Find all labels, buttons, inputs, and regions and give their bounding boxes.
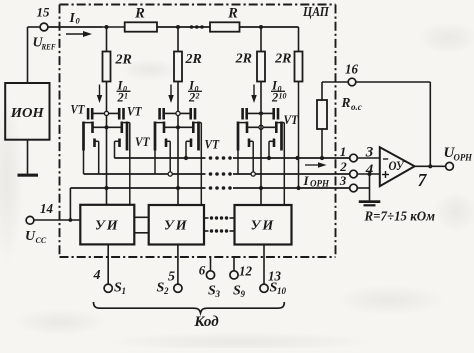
svg-text:3: 3 xyxy=(339,173,347,188)
svg-text:2R: 2R xyxy=(185,52,202,67)
svg-text:5: 5 xyxy=(168,270,175,285)
svg-text:6: 6 xyxy=(199,263,206,278)
svg-text:ИОН: ИОН xyxy=(10,105,45,120)
svg-text:10: 10 xyxy=(279,92,287,101)
svg-text:УИ: УИ xyxy=(164,219,189,234)
svg-text:1: 1 xyxy=(340,144,347,159)
svg-text:2R: 2R xyxy=(274,52,291,67)
svg-text:R: R xyxy=(227,6,238,22)
svg-text:I: I xyxy=(303,173,310,188)
svg-text:3: 3 xyxy=(365,145,374,161)
svg-text:УИ: УИ xyxy=(95,219,120,234)
svg-text:VT: VT xyxy=(284,112,299,127)
svg-text:I: I xyxy=(69,10,76,25)
svg-text:VT: VT xyxy=(205,137,220,152)
svg-text:15: 15 xyxy=(37,5,51,20)
svg-text:10: 10 xyxy=(277,286,287,296)
svg-text:2: 2 xyxy=(117,91,124,105)
svg-text:ОУ: ОУ xyxy=(389,158,406,173)
svg-text:12: 12 xyxy=(239,265,252,280)
svg-text:УИ: УИ xyxy=(251,219,276,234)
svg-text:U: U xyxy=(25,229,36,244)
svg-text:ЦАП: ЦАП xyxy=(302,4,329,19)
svg-text:3: 3 xyxy=(215,289,221,299)
svg-text:СС: СС xyxy=(36,236,47,245)
svg-text:ОРН: ОРН xyxy=(310,179,330,189)
svg-text:2R: 2R xyxy=(235,52,252,67)
svg-text:7: 7 xyxy=(418,170,428,190)
svg-text:VT: VT xyxy=(127,104,142,119)
svg-text:VT: VT xyxy=(135,134,150,149)
svg-text:2: 2 xyxy=(188,91,195,105)
svg-text:2R: 2R xyxy=(115,53,132,68)
svg-text:2: 2 xyxy=(339,159,347,174)
svg-text:Код: Код xyxy=(193,314,219,330)
svg-text:R=7÷15 кОм: R=7÷15 кОм xyxy=(364,210,436,225)
svg-text:4: 4 xyxy=(93,268,101,283)
svg-text:14: 14 xyxy=(40,201,53,216)
svg-text:REF: REF xyxy=(41,42,56,52)
svg-text:R: R xyxy=(134,6,145,22)
svg-text:1: 1 xyxy=(122,286,127,296)
svg-text:VT: VT xyxy=(71,102,86,117)
svg-text:16: 16 xyxy=(345,63,358,78)
svg-text:2: 2 xyxy=(271,91,278,105)
svg-text:2: 2 xyxy=(163,286,169,296)
svg-text:2: 2 xyxy=(195,92,200,101)
svg-text:ОРН: ОРН xyxy=(454,153,473,163)
svg-text:R: R xyxy=(341,95,351,110)
svg-text:1: 1 xyxy=(124,92,128,101)
svg-text:9: 9 xyxy=(241,289,246,299)
svg-text:о.с: о.с xyxy=(351,102,362,112)
